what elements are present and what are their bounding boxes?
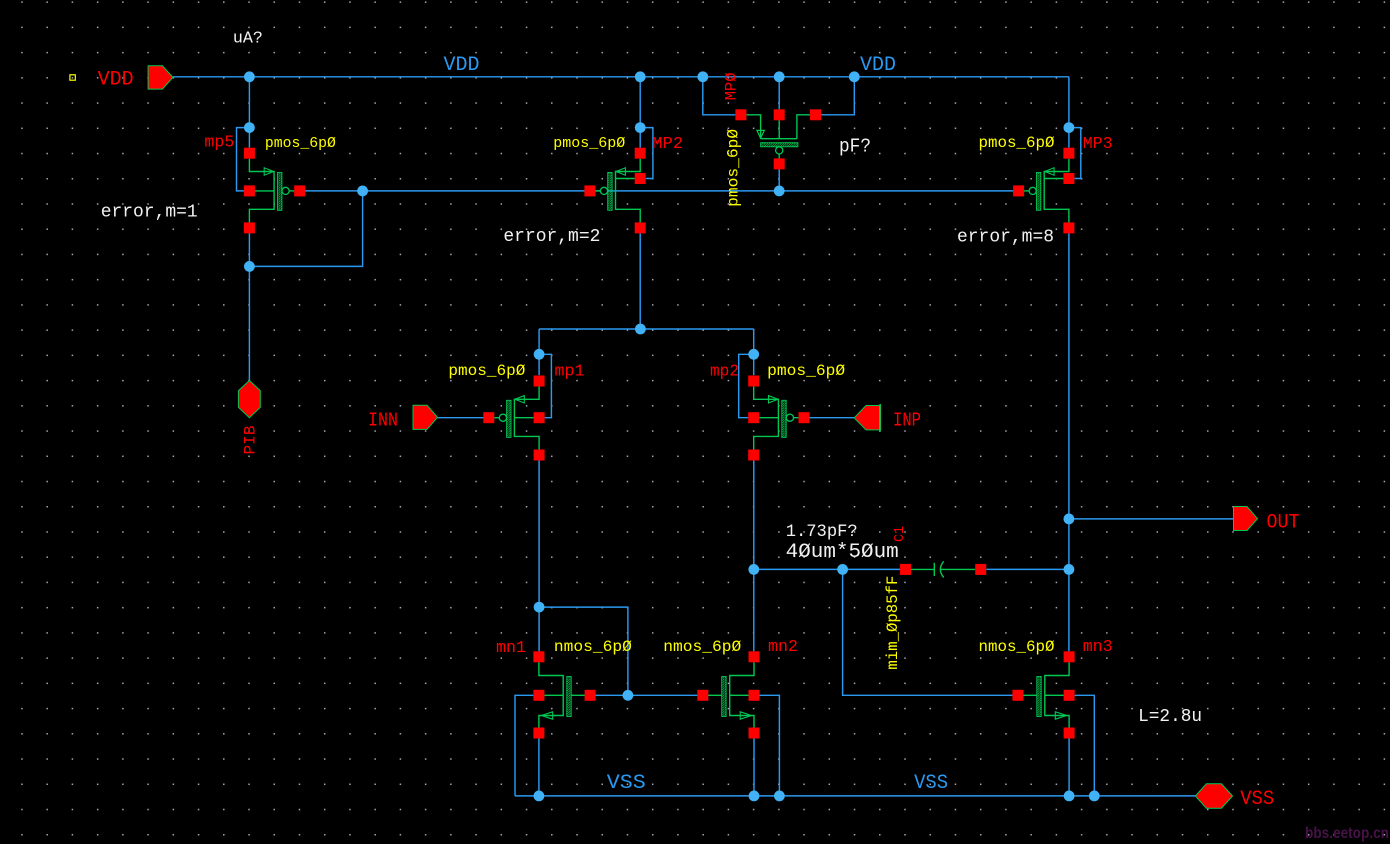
junction cap node right [1064, 564, 1075, 575]
junction VSS mn3 bulk [1089, 791, 1100, 802]
svg-text:mp1: mp1 [555, 363, 585, 382]
wire MP2 bulk tie [640, 128, 653, 179]
wire mp2 bulk tie [739, 354, 754, 417]
svg-text:mim_Øp85fF: mim_Øp85fF [884, 576, 902, 670]
junction MP2 bulk branch [635, 122, 646, 133]
transistor mn2 (nmos_6p0) [697, 651, 759, 738]
svg-text:VDD: VDD [860, 54, 896, 77]
wire mn2 source to VSS [753, 739, 755, 796]
wire mp5 gate-drain tie [249, 191, 362, 267]
svg-text:VSS: VSS [1240, 788, 1274, 811]
svg-text:pmos_6pØ: pmos_6pØ [724, 129, 742, 207]
svg-text:mn3: mn3 [1083, 638, 1113, 657]
wire mp2 gate to INP [804, 417, 854, 419]
pin INN [413, 405, 438, 429]
wire mn1 gate to mn2 gate [590, 694, 704, 696]
wire VDD drop to MP3 source [1068, 77, 1070, 148]
transistor MP0 (pmos_6p0, rotated) [735, 109, 821, 169]
wire VDD drop to MP2 source [639, 77, 641, 148]
junction MP3 bulk branch [1064, 122, 1075, 133]
junction OUT node [1064, 514, 1075, 525]
svg-text:pmos_6pØ: pmos_6pØ [448, 362, 525, 380]
junction VDD-MP0-left [697, 71, 708, 82]
junction mirror input node [534, 602, 545, 613]
svg-text:mn1: mn1 [496, 639, 526, 658]
wire mn2 bulk tie [760, 695, 780, 796]
wire MP0 gate to bias net [778, 169, 780, 191]
wire mn3 bulk tie [1075, 695, 1095, 796]
junction cap node left [748, 564, 759, 575]
junction bias-diode tie [357, 186, 368, 197]
wire mn1 source to VSS [538, 739, 540, 796]
svg-text:mp2: mp2 [710, 363, 739, 382]
pin PIB (inout) [238, 381, 260, 418]
transistor mn3 (nmos_6p0) [1012, 651, 1074, 738]
svg-text:L=2.8u: L=2.8u [1138, 707, 1202, 727]
wire VDD rail [173, 76, 1069, 78]
junction VSS mn2 bulk [774, 791, 785, 802]
junction cap tap [837, 564, 848, 575]
wire bias net mp5 gate to MP2/MP0/MP3 gates [300, 190, 1019, 192]
svg-text:VDD: VDD [98, 69, 134, 92]
svg-text:mp5: mp5 [204, 134, 234, 153]
svg-text:INN: INN [368, 410, 398, 432]
svg-text:error,m=2: error,m=2 [503, 227, 600, 247]
svg-text:OUT: OUT [1267, 512, 1300, 535]
junction PIB branch [244, 261, 255, 272]
wire VDD drop to mp5 source [248, 77, 250, 148]
svg-text:pmos_6pØ: pmos_6pØ [979, 134, 1055, 152]
wire MP3 bulk tie [1069, 128, 1081, 179]
svg-text:MP3: MP3 [1083, 135, 1113, 154]
wire MP3 drain / OUT column [1068, 233, 1070, 651]
wire C1 right to OUT column [986, 568, 1069, 570]
junction MP0 gate on bias net [774, 186, 785, 197]
pin INP [854, 406, 879, 430]
svg-text:mn2: mn2 [768, 638, 798, 657]
svg-text:error,m=8: error,m=8 [957, 228, 1054, 248]
svg-text:PIB: PIB [242, 426, 260, 455]
pin OUT [1234, 507, 1258, 531]
junction mp5 bulk branch [244, 122, 255, 133]
svg-text:nmos_6pØ: nmos_6pØ [663, 638, 741, 656]
pin VDD (input pin, top-left) [148, 66, 173, 89]
svg-text:pmos_6pØ: pmos_6pØ [265, 135, 336, 152]
svg-text:C1: C1 [893, 526, 908, 542]
wire VDD to MP0 bulk [778, 77, 780, 110]
svg-text:pmos_6pØ: pmos_6pØ [553, 135, 625, 152]
junction VSS mn3 source [1064, 791, 1075, 802]
schematic origin marker [70, 75, 75, 80]
transistor mn1 (nmos_6p0) [533, 651, 595, 738]
junction VDD-MP0-right [849, 71, 860, 82]
wire tail to mp1 source [538, 329, 540, 375]
svg-text:MPØ: MPØ [723, 72, 741, 100]
transistor MP3 (pmos_6p0) [1013, 148, 1074, 234]
svg-text:4Øum*5Øum: 4Øum*5Øum [786, 541, 899, 564]
wire mirror gate tie [539, 607, 628, 695]
transistor mp5 (pmos_6p0) [244, 148, 305, 234]
wire MP2 drain to tail [639, 233, 641, 329]
junction nmos gate node [623, 690, 634, 701]
svg-text:pmos_6pØ: pmos_6pØ [767, 362, 845, 380]
wire mn3 source to VSS [1068, 739, 1070, 796]
wire C1 tap to mn3 gate [843, 569, 1019, 695]
wire tail node horizontal [539, 328, 754, 330]
transistor MP2 (pmos_6p0) [584, 148, 645, 234]
svg-text:MP2: MP2 [652, 135, 683, 154]
svg-text:uA?: uA? [233, 30, 263, 49]
wire mp2 drain to mn2 drain [753, 461, 755, 652]
capacitor C1 (mim_0p85fF) [900, 561, 986, 577]
junction VSS mn1 source [534, 791, 545, 802]
wire mp1 bulk tie [539, 354, 551, 417]
pin VSS (inout, bottom-right) [1195, 784, 1232, 808]
wire VDD to MP0 left terminal [703, 77, 736, 115]
wire mp5 bulk tie [237, 128, 250, 191]
svg-text:VDD: VDD [444, 54, 480, 77]
wire mp5 drain to PIB pin [248, 233, 250, 380]
transistor mp2 (pmos_6p0) [748, 376, 809, 461]
svg-text:nmos_6pØ: nmos_6pØ [554, 638, 632, 656]
wire tail to mp2 source [753, 329, 755, 375]
wire mp1 drain to mn1 drain [538, 461, 540, 652]
junction VDD-mp5 [244, 71, 255, 82]
junction VSS mn2 source [749, 791, 760, 802]
svg-text:INP: INP [893, 410, 921, 432]
wire INN to mp1 gate [438, 417, 489, 419]
wire cap node to C1 left [754, 568, 900, 570]
svg-text:VSS: VSS [914, 772, 948, 795]
transistor mp1 (pmos_6p0) [483, 376, 544, 461]
svg-text:1.73pF?: 1.73pF? [786, 522, 858, 542]
junction mp2 source branch [748, 349, 759, 360]
junction tail node [635, 324, 646, 335]
junction VDD-MP0-bulk [774, 71, 785, 82]
svg-text:VSS: VSS [607, 772, 646, 795]
wire mn1 bulk tie [515, 695, 533, 796]
svg-text:error,m=1: error,m=1 [101, 203, 198, 223]
wire VSS rail [515, 795, 1195, 797]
wire OUT net to pin [1069, 518, 1234, 520]
junction mp1 source branch [534, 349, 545, 360]
svg-text:pF?: pF? [839, 136, 871, 158]
junction VDD-MP2 [635, 71, 646, 82]
svg-text:nmos_6pØ: nmos_6pØ [979, 638, 1055, 656]
wire VDD to MP0 right terminal [821, 77, 854, 115]
svg-text:bbs.eetop.cn: bbs.eetop.cn [1305, 825, 1389, 842]
